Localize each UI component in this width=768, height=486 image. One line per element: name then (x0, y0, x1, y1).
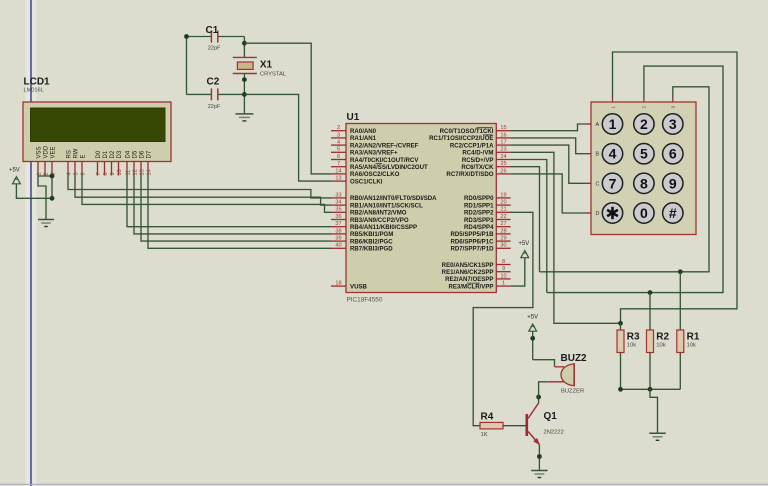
svg-text:PIC18F4550: PIC18F4550 (347, 297, 383, 304)
svg-text:RD1/SPP1: RD1/SPP1 (464, 202, 494, 209)
svg-text:RC7/RX/DT/SDO: RC7/RX/DT/SDO (446, 171, 493, 178)
svg-text:30: 30 (500, 243, 506, 249)
svg-text:RB0/AN12/INT0/FLT0/SDI/SDA: RB0/AN12/INT0/FLT0/SDI/SDA (350, 195, 437, 202)
svg-text:35: 35 (335, 207, 341, 213)
svg-text:2: 2 (642, 106, 647, 109)
svg-text:VSS: VSS (36, 146, 42, 158)
svg-text:R3: R3 (627, 331, 640, 342)
svg-text:U1: U1 (347, 112, 360, 123)
svg-text:RB2/AN8/INT2/VMO: RB2/AN8/INT2/VMO (350, 210, 407, 217)
svg-text:RB1/AN10/INT1/SCK/SCL: RB1/AN10/INT1/SCK/SCL (350, 202, 423, 209)
svg-text:23: 23 (500, 147, 506, 153)
svg-text:6: 6 (669, 146, 677, 162)
svg-text:7: 7 (96, 172, 102, 175)
svg-text:RB3/AN9/CCP2/VPO: RB3/AN9/CCP2/VPO (350, 217, 409, 224)
svg-text:RA6/OSC2/CLKO: RA6/OSC2/CLKO (350, 171, 400, 178)
svg-text:20: 20 (500, 200, 506, 206)
svg-text:LCD1: LCD1 (24, 77, 51, 88)
svg-text:R1: R1 (687, 331, 700, 342)
svg-text:#: # (669, 205, 677, 221)
svg-text:39: 39 (335, 236, 341, 242)
svg-text:R4: R4 (481, 412, 494, 423)
svg-text:1: 1 (610, 106, 615, 109)
svg-text:C2: C2 (207, 77, 220, 88)
svg-text:5: 5 (73, 172, 79, 175)
svg-text:D5: D5 (132, 150, 138, 158)
svg-text:28: 28 (500, 228, 506, 234)
svg-text:RD6/SPP6/P1C: RD6/SPP6/P1C (450, 238, 494, 245)
svg-text:29: 29 (500, 236, 506, 242)
svg-text:D6: D6 (139, 150, 145, 158)
svg-text:17: 17 (500, 140, 506, 146)
svg-text:D2: D2 (110, 150, 116, 158)
svg-text:2: 2 (43, 172, 49, 175)
svg-text:B: B (596, 152, 600, 158)
svg-text:RS: RS (66, 150, 72, 158)
svg-text:VDD: VDD (43, 145, 49, 158)
svg-text:22pF: 22pF (208, 46, 221, 52)
svg-text:14: 14 (335, 168, 341, 174)
svg-text:CRYSTAL: CRYSTAL (260, 71, 287, 77)
svg-text:RA0/AN0: RA0/AN0 (350, 128, 377, 135)
svg-text:38: 38 (335, 228, 341, 234)
svg-text:26: 26 (500, 168, 506, 174)
svg-text:9: 9 (669, 175, 677, 191)
svg-text:13: 13 (335, 176, 341, 182)
svg-text:3: 3 (669, 116, 677, 132)
svg-text:RC6/TX/CK: RC6/TX/CK (461, 164, 494, 171)
svg-text:10k: 10k (627, 343, 636, 349)
svg-text:25: 25 (500, 161, 506, 167)
svg-text:7: 7 (609, 175, 617, 191)
svg-text:RC5/D+/VP: RC5/D+/VP (462, 157, 494, 164)
svg-text:BUZ2: BUZ2 (561, 353, 588, 364)
svg-text:RW: RW (73, 148, 79, 158)
svg-text:9: 9 (502, 266, 505, 272)
svg-text:X1: X1 (260, 59, 273, 70)
svg-text:RD4/SPP4: RD4/SPP4 (464, 224, 494, 231)
svg-text:+5V: +5V (527, 315, 538, 321)
svg-text:10: 10 (500, 273, 506, 279)
svg-text:RB4/AN11/KBI0/CSSPP: RB4/AN11/KBI0/CSSPP (350, 224, 417, 231)
svg-text:RD3/SPP3: RD3/SPP3 (464, 217, 494, 224)
svg-text:RA2/AN2/VREF-/CVREF: RA2/AN2/VREF-/CVREF (350, 142, 419, 149)
svg-text:RD5/SPP5/P1B: RD5/SPP5/P1B (450, 231, 494, 238)
svg-text:40: 40 (335, 243, 341, 249)
svg-text:10k: 10k (687, 343, 696, 349)
svg-text:10k: 10k (656, 343, 665, 349)
svg-text:RB5/KBI1/PGM: RB5/KBI1/PGM (350, 231, 393, 238)
svg-text:1: 1 (36, 172, 42, 175)
svg-text:15: 15 (500, 125, 506, 131)
svg-text:5: 5 (640, 146, 648, 162)
svg-text:VUSB: VUSB (350, 283, 368, 290)
svg-text:LM016L: LM016L (24, 88, 44, 94)
svg-text:Q1: Q1 (544, 411, 558, 422)
svg-text:RD2/SPP2: RD2/SPP2 (464, 210, 494, 217)
svg-text:OSC1/CLKI: OSC1/CLKI (350, 178, 383, 185)
svg-text:RC1/T1OSI/CCP2/UOE: RC1/T1OSI/CCP2/UOE (429, 135, 493, 142)
svg-text:8: 8 (103, 172, 109, 175)
svg-text:6: 6 (337, 154, 340, 160)
svg-text:8: 8 (502, 259, 505, 265)
svg-text:RC4/D-/VM: RC4/D-/VM (462, 150, 493, 157)
svg-text:36: 36 (335, 214, 341, 220)
svg-text:24: 24 (500, 154, 506, 160)
svg-text:0: 0 (640, 205, 648, 221)
svg-text:RE2/AN7/OESPP: RE2/AN7/OESPP (445, 276, 493, 283)
svg-text:D3: D3 (117, 150, 123, 158)
svg-text:R2: R2 (656, 331, 669, 342)
svg-text:37: 37 (335, 221, 341, 227)
svg-text:22: 22 (500, 214, 506, 220)
svg-text:33: 33 (335, 192, 341, 198)
svg-text:13: 13 (139, 169, 145, 175)
svg-text:1: 1 (609, 116, 617, 132)
svg-text:3: 3 (671, 106, 676, 109)
svg-text:19: 19 (500, 192, 506, 198)
svg-text:RB6/KBI2/PGC: RB6/KBI2/PGC (350, 238, 393, 245)
svg-text:9: 9 (110, 172, 116, 175)
svg-text:22pF: 22pF (208, 104, 221, 110)
svg-text:34: 34 (335, 200, 341, 206)
svg-text:3: 3 (337, 132, 340, 138)
svg-text:RC0/T1OSO/T1CKI: RC0/T1OSO/T1CKI (440, 128, 494, 135)
svg-text:C1: C1 (206, 25, 219, 36)
svg-text:1K: 1K (481, 432, 488, 438)
svg-text:RD0/SPP0: RD0/SPP0 (464, 195, 494, 202)
svg-text:D4: D4 (125, 150, 131, 158)
svg-text:C: C (596, 181, 600, 187)
svg-text:RA1/AN1: RA1/AN1 (350, 135, 377, 142)
svg-text:BUZZER: BUZZER (561, 388, 584, 394)
svg-text:RD7/SPP7/P1D: RD7/SPP7/P1D (450, 246, 494, 253)
svg-text:2: 2 (640, 116, 648, 132)
svg-text:+5V: +5V (9, 167, 20, 173)
svg-text:6: 6 (80, 172, 86, 175)
svg-text:RE1/AN6/CK2SPP: RE1/AN6/CK2SPP (442, 269, 494, 276)
svg-text:D: D (596, 211, 600, 217)
svg-text:5: 5 (337, 147, 340, 153)
svg-text:16: 16 (500, 132, 506, 138)
svg-text:1: 1 (502, 281, 505, 287)
svg-text:E: E (80, 154, 86, 158)
svg-text:2N2222: 2N2222 (544, 430, 564, 436)
svg-text:11: 11 (125, 170, 131, 176)
svg-text:21: 21 (500, 207, 506, 213)
svg-text:10: 10 (117, 169, 123, 175)
svg-text:RE0/AN5/CK1SPP: RE0/AN5/CK1SPP (442, 262, 494, 269)
svg-text:12: 12 (132, 169, 138, 175)
svg-text:4: 4 (609, 146, 617, 162)
svg-text:RB7/KBI3/PGD: RB7/KBI3/PGD (350, 246, 393, 253)
svg-text:D0: D0 (96, 150, 102, 158)
svg-text:14: 14 (146, 169, 152, 175)
svg-text:27: 27 (500, 221, 506, 227)
svg-text:2: 2 (337, 125, 340, 131)
svg-text:D1: D1 (103, 150, 109, 158)
svg-text:VEE: VEE (50, 146, 56, 158)
svg-text:RE3/MCLR/VPP: RE3/MCLR/VPP (448, 283, 493, 290)
svg-text:8: 8 (640, 175, 648, 191)
svg-text:RA3/AN3/VREF+: RA3/AN3/VREF+ (350, 150, 398, 157)
svg-text:18: 18 (335, 281, 341, 287)
svg-text:4: 4 (337, 140, 340, 146)
svg-text:+5V: +5V (518, 241, 529, 247)
svg-text:7: 7 (337, 161, 340, 167)
svg-text:D7: D7 (146, 150, 152, 158)
svg-text:4: 4 (66, 172, 72, 175)
svg-text:RA5/AN4/SS/LVDIN/C2OUT: RA5/AN4/SS/LVDIN/C2OUT (350, 164, 428, 171)
svg-text:A: A (596, 122, 600, 128)
svg-text:RA4/T0CKI/C1OUT/RCV: RA4/T0CKI/C1OUT/RCV (350, 157, 419, 164)
svg-text:RC2/CCP1/P1A: RC2/CCP1/P1A (450, 142, 494, 149)
